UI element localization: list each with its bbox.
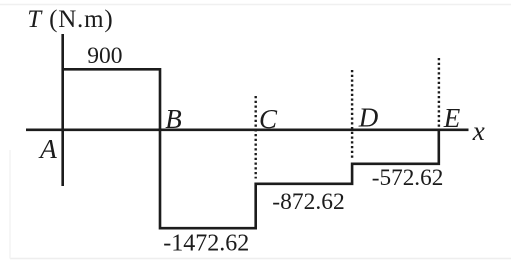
svg-text:-572.62: -572.62 <box>372 165 444 191</box>
svg-text:-872.62: -872.62 <box>272 189 344 215</box>
dotted line at D <box>351 70 353 160</box>
dotted line at E <box>438 58 440 128</box>
svg-text:900: 900 <box>87 43 122 69</box>
svg-text:T (N.m): T (N.m) <box>27 6 113 33</box>
svg-text:x: x <box>472 116 485 146</box>
faint bottom border line <box>10 258 511 260</box>
svg-text:C: C <box>259 104 278 134</box>
y-axis T <box>61 34 64 186</box>
svg-text:D: D <box>358 102 379 132</box>
svg-text:A: A <box>38 133 57 164</box>
faint top border line <box>0 4 511 6</box>
dotted line at C <box>254 96 256 179</box>
x-axis <box>26 129 469 132</box>
svg-text:B: B <box>165 104 182 134</box>
svg-text:E: E <box>443 103 461 133</box>
faint left border line <box>9 150 11 259</box>
svg-text:-1472.62: -1472.62 <box>163 231 249 257</box>
torque step curve A-B-C-D-E <box>63 69 439 228</box>
